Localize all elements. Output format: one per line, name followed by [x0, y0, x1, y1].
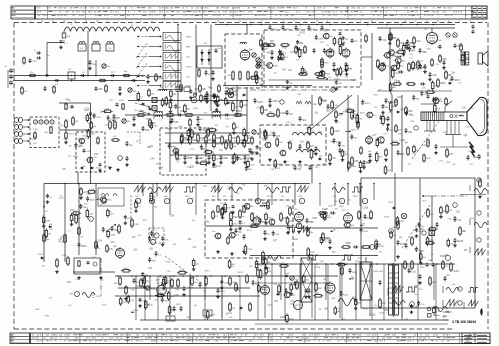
svg-text:18: 18 — [217, 21, 219, 23]
svg-text:R88: R88 — [298, 94, 301, 96]
svg-text:12: 12 — [52, 21, 54, 23]
node gnd — [297, 230, 301, 233]
svg-text:68k: 68k — [385, 107, 388, 109]
capacitor C185 — [436, 222, 439, 227]
resistor R52 — [406, 83, 416, 86]
node dash diagonal — [165, 256, 203, 284]
transistor Q6 video out — [375, 134, 384, 143]
component audio section 20 — [383, 52, 396, 58]
component module left 1 — [255, 74, 262, 85]
svg-text:C208: C208 — [399, 140, 405, 142]
wire transformer tap — [389, 272, 399, 274]
node grid reference ticks — [30, 21, 471, 23]
node deflection yoke — [421, 112, 467, 121]
node antenna input stack — [5, 65, 13, 88]
capacitor C240 — [205, 94, 214, 104]
component vision IF mid 7 — [169, 119, 174, 123]
resistor R77 — [136, 110, 146, 116]
component sync area 1 — [150, 231, 158, 237]
resistor R61 — [60, 119, 67, 129]
wire riser x157 — [156, 183, 158, 196]
component sound output 4 — [356, 114, 362, 125]
node antenna socket 3 — [15, 131, 23, 136]
svg-text:33k: 33k — [230, 196, 233, 198]
node margin circled letter — [477, 178, 481, 182]
svg-text:12: 12 — [448, 21, 450, 23]
capacitor top bus C309 — [308, 25, 316, 32]
component vision IF top 2 — [216, 95, 224, 107]
node margin dash column — [443, 312, 449, 320]
wire riser x395 — [394, 173, 396, 262]
wire video bus B — [170, 154, 250, 156]
node junction — [226, 24, 228, 26]
svg-text:R201: R201 — [388, 202, 393, 204]
wire antenna lead w/ arrow 4 — [23, 140, 30, 142]
svg-text:R315: R315 — [384, 217, 390, 219]
wire bottom riser 240 — [239, 276, 241, 320]
component EW correction 8 — [447, 238, 454, 247]
capacitor C53 — [420, 83, 425, 86]
component sound output 10 — [346, 108, 356, 112]
component video output 3 — [412, 95, 420, 101]
svg-text:18: 18 — [85, 21, 87, 23]
svg-text:C66: C66 — [404, 320, 409, 322]
component power supply left 5 — [148, 257, 156, 263]
component EW correction 9 — [415, 228, 424, 238]
node module outline S-12 (dashed) — [260, 122, 326, 165]
svg-text:R77: R77 — [156, 280, 161, 282]
component frame module 9 — [262, 251, 269, 262]
svg-text:R315: R315 — [171, 310, 177, 312]
component S-12 module 10 — [318, 156, 322, 160]
node IF can 1 — [78, 42, 86, 52]
wire video bus A — [165, 132, 250, 134]
capacitor top bus C283 — [282, 25, 291, 32]
svg-text:C66: C66 — [64, 139, 67, 141]
component sound output 11 — [345, 129, 357, 132]
svg-text:1M: 1M — [351, 277, 354, 279]
component EW correction 3 — [426, 236, 433, 246]
resistor R2 on feed — [99, 79, 107, 81]
component EW correction 10 — [390, 230, 397, 239]
node waveform annotation WA5 — [211, 186, 223, 199]
wire dashed chassis border (right) — [487, 23, 489, 330]
node component-location index table (top) — [11, 6, 487, 19]
capacitor C205 — [252, 280, 260, 286]
node junction — [286, 263, 288, 265]
component video amp 8 — [200, 145, 208, 151]
resistor R71 — [180, 83, 183, 92]
wire riser x335 — [334, 183, 336, 206]
component vision IF mid 5 — [207, 127, 217, 131]
node waveform annotation WA8 — [280, 187, 291, 198]
component power supply left 9 — [155, 293, 165, 297]
node legend entry 1 — [427, 307, 450, 314]
svg-text:47k: 47k — [208, 74, 211, 76]
svg-text:C115: C115 — [84, 108, 90, 110]
component fill 352-158 — [351, 156, 359, 166]
node junction — [260, 24, 262, 26]
svg-text:R201: R201 — [320, 42, 325, 44]
capacitor C230 — [215, 48, 221, 53]
svg-text:10n: 10n — [328, 77, 331, 79]
component power supply right 17 — [285, 273, 290, 277]
node ground row — [268, 158, 302, 163]
component vision IF top 3 — [240, 100, 248, 109]
component audio section 18 — [390, 32, 396, 41]
wire hbus 172 — [44, 171, 140, 173]
svg-text:47k: 47k — [30, 72, 33, 74]
svg-text:0.1: 0.1 — [290, 124, 293, 126]
component line osc area 12 — [331, 229, 336, 232]
capacitor C120 — [473, 154, 481, 160]
svg-text:R315: R315 — [457, 240, 463, 243]
svg-text:68k: 68k — [212, 196, 215, 198]
resistor R48 — [431, 58, 434, 67]
svg-text:1M: 1M — [238, 231, 241, 234]
capacitor C155 — [235, 228, 242, 234]
wire audio vertical rail — [389, 28, 391, 91]
wire antenna twin feed upper — [13, 75, 145, 77]
resistor R92 — [105, 84, 108, 93]
component boost 1 — [432, 97, 440, 103]
component video amp 5 — [203, 149, 213, 153]
svg-text:4: 4 — [173, 21, 174, 23]
svg-text:18: 18 — [63, 21, 65, 23]
capacitor C206 pair — [173, 304, 183, 311]
capacitor C93 — [118, 86, 122, 95]
wire transformer tap — [389, 277, 399, 279]
component S-12 module 7 — [274, 159, 283, 169]
node test point TP2 — [414, 126, 418, 130]
svg-text:24: 24 — [239, 21, 241, 23]
component UHF module lower 6 — [339, 66, 346, 76]
node junction — [386, 24, 388, 26]
wire riser x79 — [78, 183, 80, 255]
resistor R191 — [62, 255, 69, 266]
node junction — [117, 275, 119, 277]
node waveform annot pulse — [307, 255, 324, 263]
svg-text:33k: 33k — [211, 187, 214, 189]
component audio section 11 — [462, 53, 470, 62]
capacitor C76 — [132, 116, 136, 126]
component vision IF top 9 — [215, 102, 222, 112]
wire transformer tap — [389, 297, 399, 299]
svg-text:4k7: 4k7 — [342, 151, 347, 154]
wire riser x360 — [359, 183, 361, 206]
wire tuner output lines — [59, 129, 90, 131]
svg-text:R88: R88 — [422, 51, 427, 54]
capacitor C145 — [111, 226, 120, 232]
trimmer R196 — [146, 286, 157, 291]
resistor R72 — [199, 84, 207, 93]
node junction — [391, 263, 393, 265]
wire divider dash-dot — [250, 89, 340, 91]
component power supply right 18 — [259, 269, 266, 280]
resistor R209 — [257, 268, 260, 278]
component vision IF top 8 — [169, 101, 176, 113]
svg-text:4: 4 — [327, 21, 328, 23]
svg-text:R315: R315 — [379, 246, 385, 248]
component vision IF mid 2 — [187, 129, 196, 141]
resistor R67 — [111, 136, 120, 141]
node tuner text — [33, 129, 39, 145]
node circled test number — [299, 198, 304, 203]
wire bottom return — [140, 319, 448, 321]
component vision IF top 20 — [212, 93, 220, 99]
capacitor C125 — [385, 98, 393, 104]
component power supply left 7 — [220, 280, 229, 290]
node IC circle — [191, 97, 197, 103]
capacitor C158 — [259, 218, 268, 224]
wire bottom riser 436 — [435, 264, 437, 320]
svg-text:R88: R88 — [283, 47, 288, 49]
node width coil assembly — [98, 188, 124, 206]
component sound output 2 — [365, 112, 377, 118]
component IF input 2 — [107, 115, 115, 121]
svg-text:31: 31 — [74, 21, 76, 23]
component power supply left 6 — [192, 258, 200, 270]
wire bottom bus D — [255, 282, 330, 284]
trimmer C67 — [122, 119, 130, 123]
svg-text:C208: C208 — [224, 139, 230, 142]
node circled letter f — [422, 231, 426, 235]
node IF can 3 — [106, 42, 114, 52]
svg-text:C66: C66 — [174, 121, 179, 124]
capacitor C261 yoke — [434, 144, 438, 154]
wire riser x153 — [152, 184, 154, 239]
component frame module 1 — [249, 223, 259, 227]
svg-text:68k: 68k — [114, 283, 117, 285]
svg-text:C66: C66 — [297, 35, 300, 37]
resistor R62 — [64, 131, 68, 144]
svg-text:R77: R77 — [273, 241, 278, 243]
resistor R65 — [109, 120, 118, 130]
wire dashed diagonal — [402, 205, 430, 248]
component IF input 6 — [113, 119, 119, 122]
tube tuner valve TV1 — [33, 120, 37, 124]
component IF input 4 — [87, 129, 96, 139]
resistor R216 — [374, 298, 381, 309]
capacitor C2 pair — [34, 50, 49, 60]
svg-text:33k: 33k — [223, 196, 226, 198]
component S-12 module 1 — [255, 145, 263, 155]
trimmer C21 — [257, 62, 261, 66]
node label box — [166, 316, 175, 321]
capacitor C82 — [224, 114, 229, 117]
svg-text:33k: 33k — [49, 297, 52, 299]
component fill 250-150 — [249, 148, 258, 154]
svg-text:33k: 33k — [319, 156, 322, 158]
trimmer C233 — [256, 58, 260, 68]
resistor R176 — [361, 246, 371, 249]
svg-text:R315: R315 — [59, 242, 65, 244]
component fill 455-218 — [454, 216, 462, 222]
component power supply left 12 — [206, 310, 215, 320]
capacitor C5 stack — [88, 60, 97, 70]
svg-text:47k: 47k — [436, 64, 439, 66]
svg-text:47k: 47k — [136, 141, 139, 143]
wire riser x96 — [95, 184, 97, 256]
node module outline U-IF (dashed) — [264, 30, 361, 87]
node balun E1 — [62, 31, 71, 38]
resistor R165 — [289, 206, 292, 216]
resistor R129 — [395, 124, 398, 133]
svg-text:1M: 1M — [269, 111, 272, 114]
svg-text:100: 100 — [458, 83, 461, 85]
component UHF module lower 9 — [318, 71, 331, 77]
component video output 12 — [405, 111, 413, 117]
resistor R187 — [446, 204, 452, 214]
tube tuner valve TV2 — [39, 120, 43, 124]
svg-text:1M: 1M — [83, 192, 86, 194]
component EW correction 5 — [428, 226, 438, 230]
component vision IF mid 8 — [207, 127, 213, 137]
svg-text:R88: R88 — [73, 157, 78, 159]
svg-text:1M: 1M — [345, 39, 348, 41]
node waveform test pattern W5 — [137, 73, 190, 81]
resistor R172 — [322, 232, 332, 242]
svg-text:R201: R201 — [158, 293, 164, 295]
component audio section 7 — [448, 80, 453, 84]
resistor R226 — [429, 276, 438, 286]
wire bottom bus B — [115, 295, 260, 297]
node crystal box X2 — [152, 106, 157, 111]
svg-text:C208: C208 — [245, 135, 251, 137]
component vision IF top 15 — [174, 104, 182, 110]
node antenna socket 4 — [15, 138, 23, 143]
svg-text:1M: 1M — [152, 122, 155, 125]
wire L-feed — [47, 40, 64, 76]
svg-text:C115: C115 — [275, 168, 281, 170]
wire long riser 390b — [390, 91, 392, 95]
wire bus y255 — [250, 255, 378, 257]
svg-text:1M: 1M — [464, 250, 467, 252]
capacitor IF decoupling C185 — [183, 155, 192, 164]
wire riser x265 — [264, 263, 266, 318]
wire riser x222 — [221, 275, 223, 318]
svg-text:C208: C208 — [446, 162, 451, 164]
component fill 398-40 — [397, 38, 405, 48]
wire long riser 178 — [177, 24, 179, 115]
wire riser x237 top — [236, 86, 238, 118]
node lamp circle X — [401, 213, 407, 219]
resistor R26 — [295, 45, 305, 54]
node IF can 2 — [92, 42, 100, 52]
svg-text:C208: C208 — [110, 234, 116, 236]
wire dashed takeoff — [127, 132, 140, 144]
component vision IF top 16 — [224, 97, 233, 106]
component line osc area 11 — [343, 222, 355, 228]
component UHF module upper 4 — [296, 40, 304, 50]
component line osc area 5 — [295, 223, 306, 229]
node waveform annotation WA7 — [266, 188, 279, 199]
component line osc area 9 — [360, 223, 365, 226]
svg-text:R315: R315 — [186, 37, 192, 39]
transistor Q11 in S-11 — [86, 157, 98, 163]
component vision IF top 13 — [227, 92, 239, 98]
svg-text:6: 6 — [294, 21, 295, 23]
wire CRT ground line — [460, 195, 486, 199]
node circled test number — [164, 198, 169, 203]
component video amp 3 — [245, 166, 253, 172]
capacitor C123 — [435, 97, 443, 101]
resistor R102 — [289, 141, 292, 150]
component boost 5 — [433, 103, 440, 113]
wire riser x312 — [311, 263, 313, 318]
svg-text:C66: C66 — [159, 167, 164, 169]
wire yoke lamination — [424, 112, 426, 121]
svg-text:R88: R88 — [216, 137, 221, 140]
node junction — [316, 263, 318, 265]
svg-text:R315: R315 — [454, 79, 460, 82]
svg-text:10n: 10n — [273, 124, 276, 126]
svg-text:47k: 47k — [333, 196, 336, 198]
node junction — [376, 263, 378, 265]
svg-text:R315: R315 — [185, 196, 190, 198]
svg-text:C115: C115 — [257, 101, 263, 104]
svg-text:1M: 1M — [194, 305, 197, 307]
svg-text:C44: C44 — [150, 159, 155, 161]
svg-text:R120: R120 — [328, 205, 333, 207]
node pilot lamp LA1 — [446, 33, 450, 37]
tube V12 damper — [323, 279, 335, 295]
component UHF module upper 5 — [341, 36, 348, 46]
component power supply left 10 — [177, 270, 187, 274]
component UHF module upper 3 — [277, 56, 286, 62]
node component-location index table (bottom) — [10, 333, 490, 344]
component UHF module upper 6 — [339, 37, 347, 47]
svg-text:C208: C208 — [202, 129, 208, 132]
component UHF module lower 1 — [285, 80, 292, 90]
svg-text:C208: C208 — [163, 196, 168, 198]
tube tuner valve TV4 — [50, 120, 54, 124]
capacitor C91 — [95, 87, 104, 92]
node circled letter a — [331, 88, 335, 92]
svg-text:3 TB 106 38210: 3 TB 106 38210 — [452, 320, 476, 324]
svg-text:R120: R120 — [299, 33, 305, 35]
svg-text:R201: R201 — [393, 141, 399, 143]
resistor R5 left — [23, 57, 25, 65]
resistor R161 — [131, 218, 140, 228]
svg-text:R120: R120 — [264, 65, 269, 67]
svg-text:10n: 10n — [85, 138, 88, 140]
svg-text:C66: C66 — [299, 141, 304, 143]
diode D5 — [396, 111, 399, 113]
svg-text:C44: C44 — [98, 240, 103, 242]
resistor R57 in S-11 — [97, 137, 99, 145]
inductor L74 sound coil — [296, 149, 320, 152]
component video amp 2 — [176, 150, 184, 160]
wire main bus top — [215, 24, 455, 26]
node junction — [131, 275, 133, 277]
svg-text:7: 7 — [360, 21, 361, 23]
capacitor C79 — [177, 110, 185, 117]
wire bottom return 2 — [255, 323, 448, 325]
capacitor C40 anode cap — [439, 45, 442, 49]
resistor R64 hang — [65, 100, 74, 110]
node EHT cage — [301, 258, 312, 302]
wire riser x170 — [169, 183, 171, 215]
resistor IF ladder R214 — [213, 133, 221, 143]
wire transformer tap — [389, 302, 399, 304]
wire bottom riser 300 — [299, 264, 301, 320]
component line osc area 7 — [375, 243, 384, 249]
capacitor C30 — [332, 62, 336, 71]
wire video rails — [392, 95, 402, 172]
wire coil-to-feed riser x88 — [87, 31, 89, 76]
node grounds frame — [216, 250, 246, 255]
